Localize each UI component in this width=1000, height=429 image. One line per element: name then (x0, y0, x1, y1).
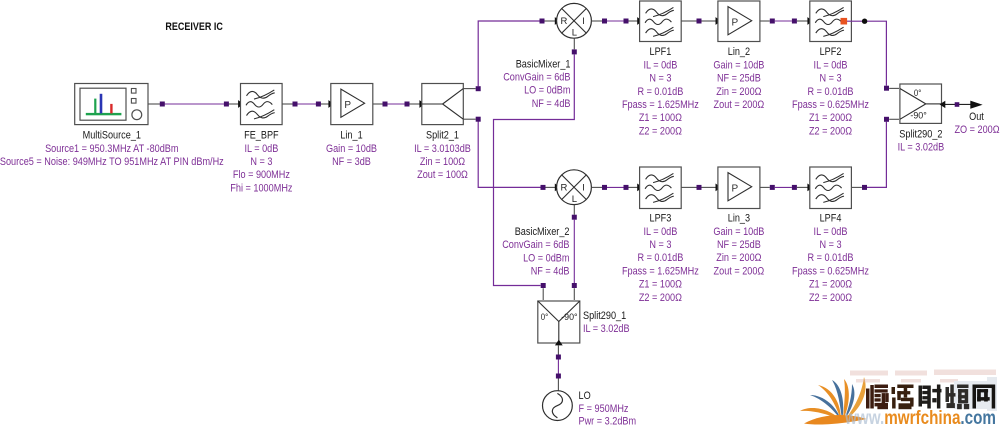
svg-text:LPF2: LPF2 (820, 46, 842, 58)
label Split290_2 (898, 128, 945, 153)
wire Split290_2 to Out port (940, 101, 971, 108)
wire MultiSource_1 to FE_BPF (148, 100, 244, 108)
wire FE_BPF to Lin_1 (282, 100, 334, 108)
svg-text:Lin_1: Lin_1 (340, 130, 362, 142)
svg-text:Source5 = Noise: 949MHz TO 951: Source5 = Noise: 949MHz TO 951MHz AT PIN… (0, 156, 224, 168)
svg-text:N = 3: N = 3 (819, 73, 841, 85)
wire LPF1 to Lin_2 (681, 17, 721, 25)
label LPF4 (792, 213, 869, 304)
svg-text:Zin = 200Ω: Zin = 200Ω (716, 252, 761, 264)
wire Lin_1 to Split2_1 (373, 100, 425, 108)
svg-text:IL = 0dB: IL = 0dB (244, 143, 278, 155)
svg-text:IL = 3.02dB: IL = 3.02dB (898, 142, 945, 154)
bandpass filter FE_BPF (241, 84, 283, 125)
svg-text:-90°: -90° (561, 312, 578, 323)
splitter Split290_1 (538, 301, 580, 343)
wire LO to Split290_1 input (556, 346, 561, 391)
svg-text:IL = 0dB: IL = 0dB (643, 226, 677, 238)
svg-text:N = 3: N = 3 (649, 73, 671, 85)
svg-text:BasicMixer_2: BasicMixer_2 (515, 226, 570, 238)
label Lin_3 (713, 213, 764, 278)
svg-text:I: I (582, 16, 585, 27)
svg-text:Zout = 200Ω: Zout = 200Ω (714, 265, 765, 277)
label LPF1 (622, 46, 699, 137)
svg-text:www.mwrfchina.com: www.mwrfchina.com (844, 408, 996, 429)
wire BasicMixer_1 LO to Split290_1 output1 (494, 38, 577, 300)
svg-text:IL = 3.02dB: IL = 3.02dB (583, 323, 630, 335)
svg-text:Gain = 10dB: Gain = 10dB (326, 143, 377, 155)
label Lin_2 (713, 46, 764, 111)
svg-text:N = 3: N = 3 (649, 239, 671, 251)
junction dot after LPF2 (862, 19, 867, 24)
watermark ghost text (850, 370, 997, 412)
svg-text:I: I (582, 183, 585, 194)
mixer BasicMixer_1 (557, 3, 592, 38)
svg-text:RECEIVER IC: RECEIVER IC (165, 21, 223, 33)
svg-text:R = 0.01dB: R = 0.01dB (808, 86, 854, 98)
svg-text:Z2 = 200Ω: Z2 = 200Ω (639, 292, 682, 304)
svg-text:LO = 0dBm: LO = 0dBm (523, 252, 569, 264)
svg-text:R = 0.01dB: R = 0.01dB (808, 252, 854, 264)
svg-text:R: R (561, 16, 568, 27)
svg-text:LPF3: LPF3 (650, 213, 672, 225)
svg-text:Fpass = 0.625MHz: Fpass = 0.625MHz (792, 99, 869, 111)
svg-text:LPF4: LPF4 (820, 213, 842, 225)
svg-text:Pwr = 3.2dBm: Pwr = 3.2dBm (579, 416, 637, 428)
svg-text:Z1 = 100Ω: Z1 = 100Ω (639, 112, 682, 124)
svg-text:ConvGain = 6dB: ConvGain = 6dB (503, 72, 570, 84)
svg-text:LPF1: LPF1 (650, 46, 672, 58)
svg-text:BasicMixer_1: BasicMixer_1 (516, 58, 571, 70)
svg-text:R = 0.01dB: R = 0.01dB (637, 86, 683, 98)
svg-text:IL = 3.0103dB: IL = 3.0103dB (414, 143, 471, 155)
label Split290_1 (583, 310, 630, 335)
svg-text:0°: 0° (914, 88, 922, 99)
watermark logo swoosh (804, 415, 867, 425)
label BasicMixer_1 (503, 58, 570, 110)
svg-text:N = 3: N = 3 (819, 239, 841, 251)
svg-text:Flo = 900MHz: Flo = 900MHz (233, 169, 290, 181)
source MultiSource_1 (75, 84, 148, 125)
svg-text:L: L (572, 27, 577, 38)
svg-text:Source1 = 950.3MHz AT -80dBm: Source1 = 950.3MHz AT -80dBm (45, 143, 178, 155)
svg-text:Gain = 10dB: Gain = 10dB (713, 59, 764, 71)
svg-text:IL = 0dB: IL = 0dB (643, 59, 677, 71)
label Split2_1 (414, 130, 471, 182)
svg-text:Z1 = 100Ω: Z1 = 100Ω (639, 279, 682, 291)
amplifier Lin_3 (718, 167, 760, 209)
amplifier Lin_1 (331, 84, 373, 125)
svg-text:IL = 0dB: IL = 0dB (814, 59, 848, 71)
label LO (579, 390, 637, 427)
wire LPF2 output to Split290_2 input1 (846, 21, 899, 91)
wire BasicMixer_1 IF to LPF1 (591, 17, 643, 25)
svg-text:LO = 0dBm: LO = 0dBm (524, 85, 570, 97)
svg-text:Lin_3: Lin_3 (728, 213, 750, 225)
svg-text:NF = 25dB: NF = 25dB (717, 73, 761, 85)
lowpass filter LPF1 (640, 1, 682, 42)
combiner Split290_2 (900, 84, 942, 123)
node marker orange on LPF2 output (841, 18, 848, 25)
label BasicMixer_2 (502, 226, 569, 278)
label FE_BPF (230, 130, 292, 195)
svg-text:Fpass = 1.625MHz: Fpass = 1.625MHz (622, 265, 699, 277)
label MultiSource_1 (0, 130, 224, 168)
svg-text:Fpass = 0.625MHz: Fpass = 0.625MHz (792, 265, 869, 277)
wire LPF4 output to Split290_2 input2 (851, 117, 899, 190)
wire Split2_1 output2 to BasicMixer_2 RF (463, 117, 560, 192)
watermark logo leaves (800, 377, 866, 421)
svg-text:ZO = 200Ω: ZO = 200Ω (954, 124, 999, 136)
svg-text:IL = 0dB: IL = 0dB (814, 226, 848, 238)
oscillator LO (543, 391, 573, 421)
amplifier Lin_2 (718, 1, 760, 42)
svg-text:Zin = 200Ω: Zin = 200Ω (716, 86, 761, 98)
watermark text 微波射频网 (866, 385, 995, 410)
svg-text:-90°: -90° (910, 111, 927, 122)
label LPF2 (792, 46, 869, 137)
lowpass filter LPF4 (810, 167, 852, 209)
wire BasicMixer_2 LO to Split290_1 output2 (572, 205, 577, 300)
svg-text:Split290_1: Split290_1 (583, 310, 626, 322)
svg-text:Zout = 100Ω: Zout = 100Ω (417, 169, 468, 181)
svg-text:Zout = 200Ω: Zout = 200Ω (714, 99, 765, 111)
svg-text:Split290_2: Split290_2 (899, 128, 942, 140)
svg-text:Fhi = 1000MHz: Fhi = 1000MHz (230, 182, 292, 194)
svg-text:Lin_2: Lin_2 (728, 46, 750, 58)
svg-text:LO: LO (579, 390, 592, 402)
svg-text:Out: Out (969, 111, 984, 123)
svg-text:Zin = 100Ω: Zin = 100Ω (420, 156, 465, 168)
svg-text:Gain = 10dB: Gain = 10dB (713, 226, 764, 238)
svg-text:MultiSource_1: MultiSource_1 (83, 130, 141, 142)
lowpass filter LPF2 (810, 1, 852, 42)
svg-text:Z2 = 200Ω: Z2 = 200Ω (809, 125, 852, 137)
svg-text:Fpass = 1.625MHz: Fpass = 1.625MHz (622, 99, 699, 111)
mixer BasicMixer_2 (557, 170, 592, 205)
lowpass filter LPF3 (640, 167, 682, 209)
svg-text:L: L (572, 194, 577, 205)
wire Lin_2 to LPF2 (760, 17, 813, 25)
svg-text:N = 3: N = 3 (250, 156, 272, 168)
svg-text:Z2 = 200Ω: Z2 = 200Ω (639, 125, 682, 137)
wire Lin_3 to LPF4 (760, 184, 813, 192)
wire Split2_1 output1 to BasicMixer_1 RF (463, 17, 560, 91)
svg-text:R: R (561, 183, 568, 194)
svg-text:NF = 25dB: NF = 25dB (717, 239, 761, 251)
svg-text:0°: 0° (541, 312, 549, 323)
splitter Split2_1 (422, 84, 464, 125)
wire LPF3 to Lin_3 (681, 184, 721, 192)
svg-text:Z1 = 200Ω: Z1 = 200Ω (809, 112, 852, 124)
svg-text:FE_BPF: FE_BPF (244, 130, 279, 142)
label Lin_1 (326, 130, 377, 168)
svg-text:ConvGain = 6dB: ConvGain = 6dB (502, 239, 569, 251)
svg-text:F = 950MHz: F = 950MHz (579, 403, 629, 415)
svg-text:Z2 = 200Ω: Z2 = 200Ω (809, 292, 852, 304)
label Out (954, 111, 999, 136)
svg-text:NF = 3dB: NF = 3dB (332, 156, 371, 168)
svg-text:NF = 4dB: NF = 4dB (531, 266, 570, 278)
svg-text:NF = 4dB: NF = 4dB (532, 98, 571, 110)
svg-text:Split2_1: Split2_1 (426, 130, 459, 142)
svg-text:Z1 = 200Ω: Z1 = 200Ω (809, 279, 852, 291)
output terminal Out arrow (970, 101, 982, 109)
label LPF3 (622, 213, 699, 304)
wire BasicMixer_2 IF to LPF3 (591, 184, 643, 192)
svg-text:R = 0.01dB: R = 0.01dB (637, 252, 683, 264)
input arrow Split290_1 (555, 340, 563, 346)
